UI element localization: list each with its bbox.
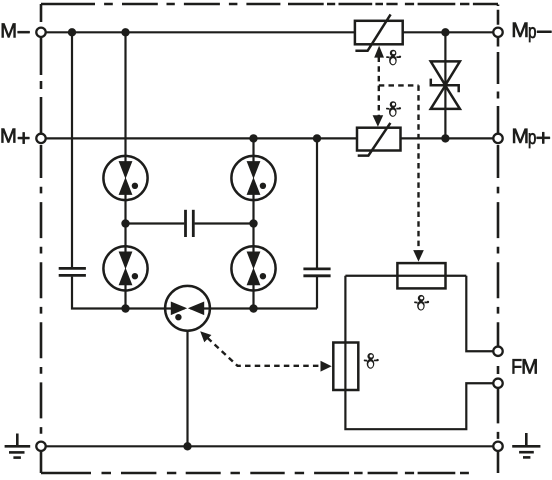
terminal M− — [36, 28, 45, 37]
label M+ (M) — [2, 129, 16, 143]
wire M− line left — [46, 31, 355, 33]
wire left branch x=72 from M− to capacitor — [71, 32, 73, 267]
label Mp+ (plus) — [537, 132, 550, 143]
label FM (M) — [523, 359, 537, 373]
label Mp− (M) — [513, 23, 527, 37]
terminal bottom-left — [36, 442, 45, 451]
capacitor C3 (right, horizontal plates) — [303, 269, 330, 276]
capacitor C2 (middle, vertical plates) — [186, 210, 194, 237]
gas discharge tube F1 (row1 left) — [103, 156, 147, 200]
label ϑ at RV1 — [386, 50, 401, 66]
junction M+/x317 — [313, 134, 321, 142]
wire M− line right of varistor — [403, 31, 494, 33]
wire left branch x=72 below capacitor to horizontal bus — [72, 277, 185, 309]
thermal disconnect dashed link varistors — [379, 57, 419, 251]
label ϑ at RV2 — [386, 101, 401, 117]
junction cap branch left — [121, 219, 129, 227]
arrow up at varistor RV1 — [374, 46, 384, 58]
junction M−/x72 — [68, 28, 76, 36]
label FM (F) — [513, 359, 522, 373]
junction bus left — [121, 304, 129, 312]
arrow down at thermal switch TH1 — [413, 250, 424, 262]
label ϑ at TH1 — [414, 295, 429, 311]
terminal Mp+ — [493, 134, 502, 143]
arrow at center GDT (pointing up-left) — [200, 331, 211, 342]
label ϑ at TH2 — [364, 353, 379, 369]
terminal FM upper — [493, 347, 502, 356]
junction bus right — [249, 304, 257, 312]
dashed monitor link GDT to thermal switch TH2 — [208, 338, 321, 366]
junction M+/x253.5 — [249, 134, 257, 142]
capacitor C1 (left, horizontal plates) — [59, 268, 86, 275]
suppressor diode D1 (bidirectional) — [431, 61, 460, 109]
label M− (M) — [2, 24, 16, 38]
junction M−/suppressor — [441, 28, 449, 36]
terminal M+ — [36, 134, 45, 143]
FM loop right upper to FM1 — [466, 276, 493, 352]
wire M+ line left — [46, 137, 357, 139]
wire GDT column x=253.5 upper — [252, 138, 254, 175]
wire GDT column x=125.5 upper — [124, 32, 126, 175]
junction cap branch right — [249, 219, 257, 227]
wire bottom ground line — [46, 445, 494, 447]
varistor RV1 (on M− line) — [355, 14, 403, 50]
wire suppressor diode branch x=445.4 — [444, 32, 446, 138]
label Mp− (p) — [529, 27, 536, 42]
gas discharge tube F2 (row1 right) — [231, 156, 275, 200]
FM loop lower from FM2 — [345, 276, 493, 429]
wire GDT column x=125.5 middle — [124, 180, 126, 266]
varistor RV2 (on M+ line) — [357, 123, 401, 156]
wire right branch x=317 below capacitor — [316, 277, 318, 309]
terminal bottom-right — [493, 442, 502, 451]
junction ground line — [183, 442, 191, 450]
wire horizontal bus y=308.5 right part — [190, 307, 317, 309]
label M+ (plus) — [18, 132, 30, 143]
wire right branch x=317 from M+ to capacitor — [316, 138, 318, 267]
ground symbol left — [5, 434, 31, 458]
gas discharge tube F5 (center, horizontal, with monitor) — [165, 286, 210, 331]
wire GDT column x=253.5 middle — [252, 180, 254, 266]
wire M+ line right of varistor — [401, 137, 494, 139]
thermal switch TH1 (horizontal rect in FM loop) — [397, 263, 445, 288]
wire center GDT stem to ground line — [186, 331, 188, 446]
terminal FM lower — [493, 379, 502, 388]
arrow into thermal switch TH2 (pointing right) — [321, 361, 332, 372]
arrow down at varistor RV2 — [373, 115, 384, 127]
label Mp− (minus bar) — [537, 31, 552, 33]
junction M+/suppressor — [441, 134, 449, 142]
label M− (minus bar) — [18, 31, 30, 33]
junction M−/x125.5 — [121, 28, 129, 36]
wire GDT column x=253.5 lower — [252, 271, 254, 309]
FM loop top wire — [345, 275, 466, 277]
thermal switch TH2 (vertical rect in FM loop) — [333, 343, 358, 391]
ground symbol right — [512, 433, 540, 457]
wire GDT column x=125.5 lower — [124, 271, 126, 309]
label Mp+ (M) — [513, 129, 527, 143]
gas discharge tube F4 (row2 right) — [231, 246, 275, 290]
wire capacitor branch y=223.5 — [126, 222, 254, 224]
label Mp+ (p) — [529, 133, 536, 148]
terminal Mp− — [493, 28, 502, 37]
gas discharge tube F3 (row2 left) — [103, 246, 147, 290]
